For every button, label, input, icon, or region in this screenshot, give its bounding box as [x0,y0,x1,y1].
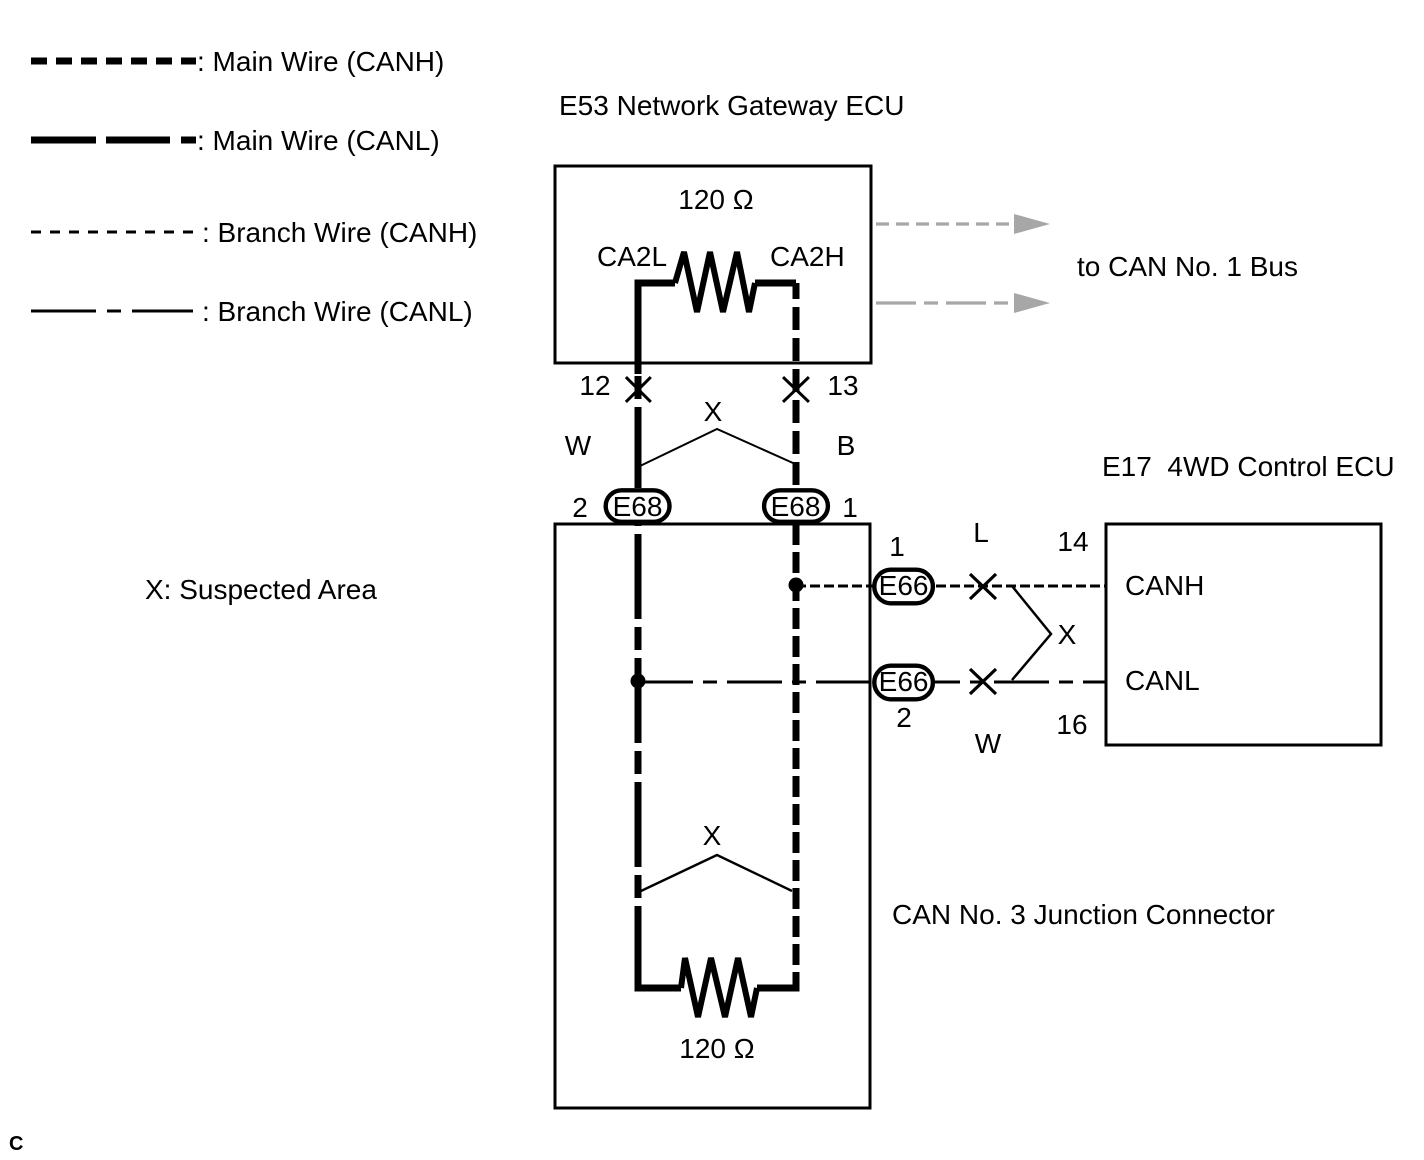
svg-text:120 Ω: 120 Ω [679,1033,754,1064]
svg-text:16: 16 [1056,709,1087,740]
wire: CANH main from CA2H pin (thick dashed) [755,280,796,287]
svg-text:X: X [704,396,723,427]
resistor R2 120 ohm inside junction connector [681,958,757,1017]
junction connector box (CAN No. 3) [555,524,870,1108]
svg-text:CA2L: CA2L [597,241,667,272]
resistor R1 120 ohm inside E53 [675,252,755,312]
svg-text:120 Ω: 120 Ω [678,184,753,215]
svg-text:CAN No. 3 Junction Connector: CAN No. 3 Junction Connector [892,899,1275,930]
wire: CANH main inside junction box (thick dashed) [793,524,800,976]
svg-text:E68: E68 [613,491,663,522]
connector E66 pin 1 [874,570,933,604]
svg-text:L: L [973,517,989,548]
svg-text:: Main Wire (CANH): : Main Wire (CANH) [197,46,444,77]
svg-text:E66: E66 [879,570,929,601]
svg-text:: Branch Wire (CANH): : Branch Wire (CANH) [202,217,477,248]
legend sample: Main Wire (CANL) [31,137,196,144]
svg-text:12: 12 [579,370,610,401]
svg-text:E17 4WD Control ECU: E17 4WD Control ECU [1102,451,1395,482]
svg-text:X: X [1058,619,1077,650]
branch wire CANH (thin dashed) to E66 [796,585,1106,588]
wire: CANH main bottom corner to resistor R2 [757,972,796,988]
svg-text:: Branch Wire (CANL): : Branch Wire (CANL) [202,296,473,327]
suspected area marker X (main wires E53-E68) [640,396,793,466]
svg-text:CA2H: CA2H [770,241,845,272]
svg-text:W: W [975,728,1002,759]
svg-text:E66: E66 [879,666,929,697]
break X mark on CANH branch [970,574,996,599]
bus arrow CANH to CAN No.1 Bus (gray dashed) [876,214,1050,234]
suspected area marker X (branch wires at E17) [1012,586,1077,680]
svg-text:1: 1 [889,531,905,562]
svg-text:C: C [9,1133,23,1155]
svg-text:14: 14 [1057,526,1088,557]
wire: CANL main from CA2L pin (thick solid) [638,283,675,488]
svg-text:W: W [565,430,592,461]
svg-text:X: Suspected Area: X: Suspected Area [145,574,377,605]
suspected area marker X (junction box wires) [641,820,792,891]
svg-text:13: 13 [827,370,858,401]
ECU box E17 [1106,524,1381,745]
svg-text:2: 2 [572,492,588,523]
junction node on CANH wire [789,578,804,593]
break X mark on CANL branch [970,669,996,694]
pin 13 break X mark [783,377,809,402]
branch wire CANL (thin long-dash) to E66 [638,681,1106,684]
svg-text:CANH: CANH [1125,570,1204,601]
svg-text:E68: E68 [771,491,821,522]
connector E68 pin 1 [764,490,828,522]
pin 12 break X mark [626,377,651,402]
svg-text:B: B [837,430,856,461]
wire: CANL main inside junction box (thick long-dash) [635,524,642,977]
ECU box E53 [555,166,871,363]
junction node on CANL wire [631,674,646,689]
legend sample: Branch Wire (CANL) [31,310,193,313]
svg-text:X: X [703,820,722,851]
svg-text:to CAN No. 1 Bus: to CAN No. 1 Bus [1077,251,1298,282]
bus arrow CANL to CAN No.1 Bus (gray long-dash) [876,293,1050,313]
svg-text:: Main Wire (CANL): : Main Wire (CANL) [197,125,440,156]
legend sample: Branch Wire (CANH) [31,231,193,234]
wire: CANL main bottom corner to resistor R2 [638,974,681,988]
svg-text:2: 2 [896,702,912,733]
svg-text:1: 1 [842,492,858,523]
connector E68 pin 2 [606,490,670,522]
svg-text:CANL: CANL [1125,665,1200,696]
svg-text:E53 Network Gateway ECU: E53 Network Gateway ECU [559,90,904,121]
connector E66 pin 2 [874,666,933,700]
legend sample: Main Wire (CANH) [31,58,196,65]
wire: CANH main vertical E53 to E68 (thick dashed) [793,283,800,488]
